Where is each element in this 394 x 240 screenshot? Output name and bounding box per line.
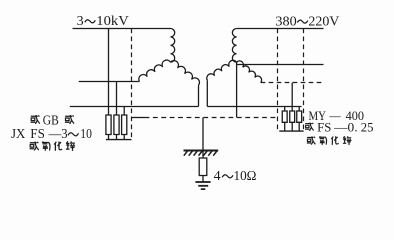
svg-text:220V: 220V: [308, 15, 339, 30]
svg-text:10kV: 10kV: [96, 14, 129, 29]
svg-text:JX: JX: [11, 126, 26, 141]
svg-text:—3: —3: [48, 126, 68, 141]
svg-text:10: 10: [80, 126, 92, 141]
svg-text:FS: FS: [317, 121, 331, 135]
svg-text:—0.: —0.: [333, 121, 358, 135]
svg-text:25: 25: [361, 121, 374, 135]
svg-text:10Ω: 10Ω: [234, 168, 257, 183]
svg-text:380: 380: [275, 15, 296, 30]
svg-text:FS: FS: [30, 126, 45, 141]
svg-text:4: 4: [214, 168, 221, 183]
svg-text:3: 3: [77, 14, 84, 29]
